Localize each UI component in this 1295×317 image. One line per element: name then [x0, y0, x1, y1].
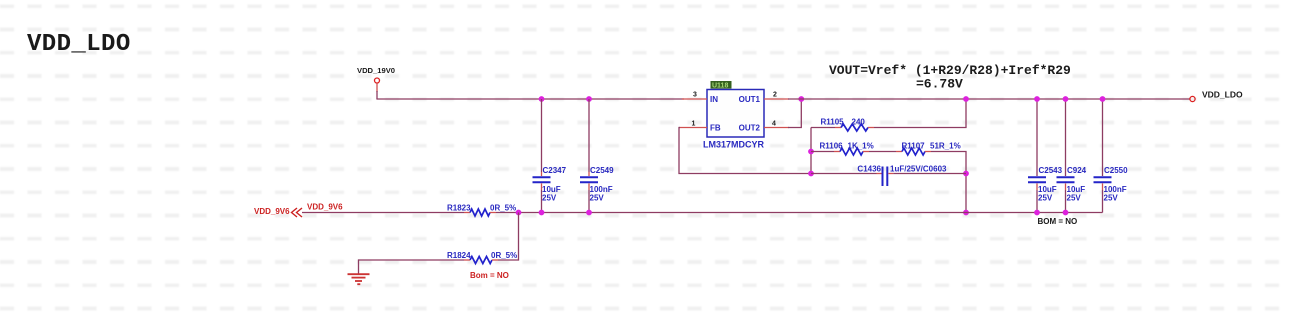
- svg-text:VDD_9V6: VDD_9V6: [307, 203, 343, 212]
- svg-text:VDD_9V6: VDD_9V6: [254, 207, 290, 216]
- port VDD_9V6 chevron: [254, 207, 302, 217]
- svg-text:C2549: C2549: [590, 166, 614, 175]
- note Bom = NO: [470, 271, 509, 280]
- pin 3 stub (IN): [682, 92, 707, 100]
- node junction right/bottom rail: [963, 210, 969, 216]
- wire C2549 lower drop: [588, 190, 590, 213]
- svg-text:C2347: C2347: [543, 166, 567, 175]
- wire between R1106 and R1107: [869, 151, 896, 153]
- svg-text:IN: IN: [710, 95, 718, 104]
- formula note VOUT: [829, 63, 1071, 92]
- capacitor C1436: [811, 165, 966, 187]
- svg-text:C924: C924: [1067, 166, 1087, 175]
- port VDD_LDO terminal: [1190, 90, 1243, 102]
- svg-text:25V: 25V: [1067, 194, 1082, 203]
- svg-text:25V: 25V: [590, 194, 605, 203]
- resistor R1107 51R_1%: [896, 142, 961, 156]
- node junction C924 top: [1063, 96, 1069, 102]
- wire bottom rail: [302, 212, 1103, 214]
- svg-text:=6.78V: =6.78V: [916, 77, 963, 92]
- capacitor C2550: [1094, 99, 1129, 213]
- svg-text:25V: 25V: [1038, 194, 1053, 203]
- wire C2549 upper drop: [588, 99, 590, 172]
- node junction FB/C1436: [808, 171, 814, 177]
- svg-text:OUT2: OUT2: [739, 123, 761, 132]
- svg-text:25V: 25V: [1104, 194, 1119, 203]
- resistor R1823 0R_5%: [447, 204, 516, 217]
- op-amp U118 refdes highlight: [711, 81, 732, 90]
- wire C2347 upper drop: [541, 99, 543, 172]
- svg-text:51R_1%: 51R_1%: [930, 142, 961, 151]
- wire FB node vertical: [810, 128, 812, 174]
- wire R1824 riser: [498, 213, 519, 261]
- svg-text:R1824: R1824: [447, 251, 471, 260]
- node junction C2347 top: [539, 96, 545, 102]
- capacitor C924: [1057, 99, 1087, 213]
- pin 1 stub (FB): [679, 121, 707, 128]
- svg-text:R1105: R1105: [821, 118, 845, 127]
- svg-text:240: 240: [852, 118, 866, 127]
- wire R1824 row: [359, 259, 465, 261]
- node junction C2543 bottom: [1034, 210, 1040, 216]
- resistor R1824 0R_5%: [447, 251, 517, 264]
- svg-text:R1823: R1823: [447, 204, 471, 213]
- net label VDD_9V6: [307, 203, 343, 212]
- svg-text:FB: FB: [710, 123, 721, 132]
- svg-text:1: 1: [692, 121, 696, 128]
- node junction R1105/output rail: [963, 96, 969, 102]
- capacitor C2543: [1028, 99, 1063, 213]
- svg-text:3: 3: [693, 92, 697, 99]
- svg-text:LM317MDCYR: LM317MDCYR: [703, 140, 765, 150]
- resistor R1106 1K_1%: [811, 142, 874, 156]
- svg-text:C2543: C2543: [1039, 166, 1063, 175]
- node junction C2550 top: [1100, 96, 1106, 102]
- svg-text:C2550: C2550: [1104, 166, 1128, 175]
- svg-text:BOM = NO: BOM = NO: [1038, 217, 1078, 226]
- svg-text:4: 4: [772, 121, 776, 128]
- node junction C2347 bottom: [539, 210, 545, 216]
- svg-text:1K_1%: 1K_1%: [848, 142, 874, 151]
- resistor R1105 240: [811, 118, 874, 132]
- wire VDD_19V0 vertical: [376, 91, 378, 99]
- node junction FB/R1106: [808, 149, 814, 155]
- svg-text:C1436: C1436: [857, 165, 881, 174]
- IC U118 LM317MDCYR body: [703, 90, 765, 150]
- svg-text:VDD_LDO: VDD_LDO: [1202, 90, 1243, 100]
- node junction C1436 right: [963, 171, 969, 177]
- svg-text:OUT1: OUT1: [739, 95, 761, 104]
- ground: [348, 259, 370, 284]
- wire C2347 lower drop: [541, 190, 543, 213]
- svg-text:0R_5%: 0R_5%: [491, 251, 517, 260]
- wire pin4 riser to output rail: [788, 99, 801, 128]
- svg-text:U118: U118: [712, 83, 728, 90]
- pin 2 stub (OUT1): [764, 92, 789, 100]
- capacitor C2549: [580, 166, 614, 203]
- node junction C924 bottom: [1063, 210, 1069, 216]
- node junction pin4/output rail: [798, 96, 804, 102]
- wire R1107 right drop: [931, 152, 966, 213]
- wire VDD_19V0 rail to pin3: [376, 98, 684, 100]
- svg-text:2: 2: [773, 92, 777, 99]
- wire FB to lower row: [679, 128, 812, 174]
- port VDD_19V0 terminal: [357, 66, 395, 92]
- svg-text:25V: 25V: [542, 194, 557, 203]
- capacitor C2347: [533, 166, 567, 203]
- svg-text:R1107: R1107: [902, 142, 926, 151]
- node junction C2549 top: [586, 96, 592, 102]
- svg-text:0R_5%: 0R_5%: [490, 204, 516, 213]
- svg-text:Bom = NO: Bom = NO: [470, 271, 509, 280]
- wire output rail: [788, 98, 1190, 100]
- svg-text:1uF/25V/C0603: 1uF/25V/C0603: [890, 165, 947, 174]
- svg-text:VDD_19V0: VDD_19V0: [357, 66, 395, 75]
- node junction R1824 riser/bottom rail: [516, 210, 522, 216]
- svg-text:VDD_LDO: VDD_LDO: [27, 31, 131, 58]
- title VDD_LDO: [27, 31, 131, 58]
- node junction C2543 top: [1034, 96, 1040, 102]
- wire R1105 right riser to rail: [874, 99, 966, 128]
- note BOM = NO: [1038, 217, 1078, 226]
- pin 4 stub (OUT2): [764, 121, 789, 128]
- node junction C2549 bottom: [586, 210, 592, 216]
- svg-text:R1106: R1106: [820, 142, 844, 151]
